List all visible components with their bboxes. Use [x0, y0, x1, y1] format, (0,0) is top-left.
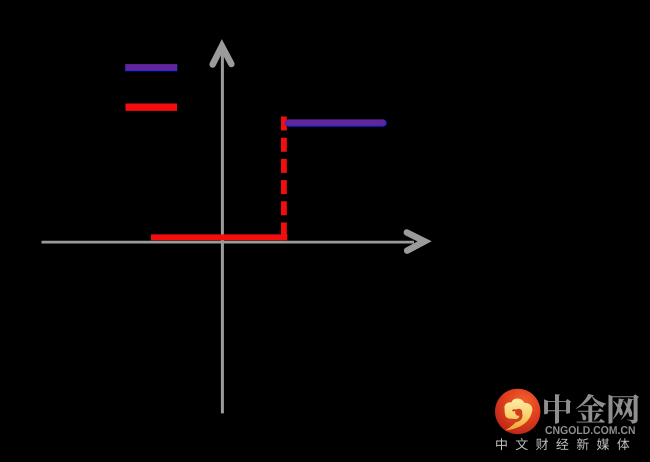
logo text char 网	[609, 394, 640, 423]
tagline char 媒	[597, 438, 609, 450]
red step: horizontal segment on x-axis	[151, 234, 287, 240]
swirl channel	[508, 414, 521, 421]
x-axis	[42, 241, 415, 244]
tagline char 体	[617, 438, 629, 450]
logo cloud swirl	[504, 398, 532, 430]
logo circle	[495, 389, 540, 434]
tagline char 中	[496, 438, 507, 450]
tagline char 新	[577, 438, 589, 450]
y-axis arrowhead	[213, 46, 232, 64]
legend purple line	[126, 64, 178, 70]
logo text char 中	[544, 394, 571, 424]
tagline char 经	[556, 438, 568, 450]
legend red line	[126, 103, 178, 110]
swirl inner curl tip	[513, 409, 517, 411]
x-axis arrowhead	[407, 233, 425, 251]
purple step line (blue edge)	[289, 119, 384, 126]
tagline char 文	[516, 438, 528, 450]
red dashed vertical riser	[281, 117, 287, 238]
logo url text CNGOLD.COM.CN	[545, 426, 634, 434]
swirl center hole	[515, 409, 522, 416]
legend purple line (blue edge)	[125, 64, 177, 71]
tagline char 财	[536, 438, 548, 450]
y-axis	[221, 50, 224, 413]
logo text char 金	[576, 394, 606, 423]
purple step line	[289, 120, 383, 126]
